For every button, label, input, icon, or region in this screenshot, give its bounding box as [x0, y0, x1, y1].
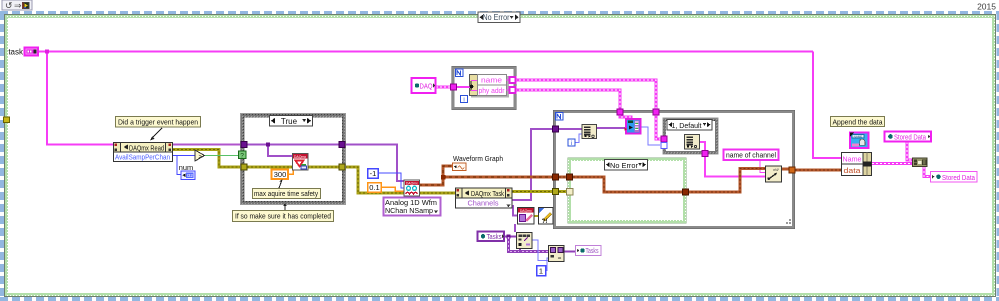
tunnel big loop left olive	[553, 189, 559, 195]
tunnel 1Default left blue	[661, 143, 667, 149]
svg-text:DAQ: DAQ	[420, 81, 433, 90]
svg-text:>: >	[199, 154, 203, 160]
wire brown set attribute to loop edge	[781, 168, 790, 171]
label Did a trigger event happen	[116, 117, 201, 141]
svg-text:I32: I32	[187, 173, 194, 178]
tunnel big loop left violet task	[553, 126, 559, 132]
wire orange 300 to wait VI	[288, 170, 293, 174]
terminal Waveform Graph	[453, 163, 467, 171]
wire error olive inside big loop to green case	[559, 190, 569, 193]
tunnel big loop top phy addr	[617, 109, 623, 115]
svg-text:DAQmx: DAQmx	[520, 209, 532, 213]
tunnel selector green ?	[239, 151, 247, 160]
svg-text:DAQmx Read: DAQmx Read	[129, 143, 164, 152]
tunnel mini loop right name	[510, 77, 516, 83]
tunnel big loop top name	[653, 109, 659, 115]
wire blue 1 constant to icon2	[545, 258, 548, 271]
svg-text:nW: nW	[773, 168, 779, 172]
resize glyph big loop corner	[786, 219, 791, 224]
tunnel 1Default left magenta	[661, 136, 667, 142]
svg-text:DAQmx Task: DAQmx Task	[471, 189, 504, 198]
comparison greater-than-zero triangle	[195, 150, 205, 161]
wire violet property node to clear task icon	[513, 205, 517, 216]
svg-text:Append the data: Append the data	[833, 117, 883, 126]
polymorphic selector Analog 1D Wfm NChan NSamp	[384, 198, 441, 216]
wire task main (magenta)	[38, 52, 841, 159]
wire error olive: read VI to property node	[419, 192, 455, 195]
constant 0.1	[368, 183, 382, 193]
label Append the data	[831, 117, 885, 127]
tunnel violet right True	[339, 142, 345, 148]
svg-text:True: True	[281, 117, 298, 126]
svg-text:Stored Data: Stored Data	[894, 133, 927, 142]
indicator num I32	[181, 171, 195, 180]
wire stored data control into build array	[907, 142, 912, 160]
svg-text:name: name	[481, 77, 502, 84]
svg-text:No Error: No Error	[610, 161, 638, 170]
constant 1	[537, 266, 546, 276]
svg-text:Channels: Channels	[468, 198, 499, 207]
mini loop N terminal	[456, 69, 464, 77]
wire error olive: property node to big for-loop	[512, 190, 553, 193]
control Stored Data	[885, 132, 932, 142]
wire brown green case to set attribute vi	[687, 169, 765, 193]
wire build array to stored data indicator	[924, 167, 930, 177]
svg-text:Tasks: Tasks	[586, 248, 599, 255]
svg-text:2015: 2015	[977, 2, 996, 12]
olive tunnel on outer case left border	[4, 117, 10, 123]
wire name inside big loop to 1,Default case	[656, 114, 663, 139]
wire violet icon2 to Tasks indicator	[564, 250, 575, 252]
property node name / phy addr	[457, 75, 510, 98]
wire task violet: True case to read VI icon	[345, 145, 404, 182]
svg-text:DAQmx: DAQmx	[294, 155, 307, 159]
svg-text:?!: ?!	[542, 219, 548, 225]
index array icon (big loop)	[582, 125, 597, 139]
svg-text:Name: Name	[843, 155, 862, 164]
wire i32 blue: read output to comparison	[173, 156, 195, 175]
tunnel green case right brown	[683, 189, 689, 195]
wire violet tasks control to insert icon	[504, 235, 516, 237]
svg-text:Waveform Graph: Waveform Graph	[453, 154, 503, 163]
wire brown loop edge to bundle data	[795, 169, 841, 172]
bundle by name node (Name / data)	[842, 153, 872, 176]
wire phy addr output to big for-loop	[515, 90, 620, 112]
svg-text:data: data	[844, 166, 862, 175]
property node DAQmx Task / Channels	[456, 188, 513, 208]
vi waveform name (blue icon above bundle)	[850, 133, 869, 149]
vi DAQmx clear task	[518, 208, 535, 225]
junction dot brown wire	[441, 175, 446, 180]
svg-text:No Error: No Error	[483, 13, 510, 22]
tunnel green case left brown	[567, 174, 573, 180]
control DAQ	[412, 78, 436, 93]
svg-text:If so make sure it has complet: If so make sure it has completed	[235, 212, 331, 221]
junction dot tasks wire	[507, 235, 511, 239]
tunnel olive left True	[241, 164, 247, 170]
svg-text:∞: ∞	[558, 256, 562, 262]
tunnel olive right True	[339, 164, 345, 170]
wire task violet inside big loop to index array	[559, 128, 582, 130]
wire brown inside big loop into green case	[559, 176, 569, 179]
case structure True	[241, 114, 346, 205]
wire blue i terminal to index array	[575, 134, 582, 143]
svg-text:1: 1	[539, 267, 543, 276]
wire violet index array to search icon	[597, 127, 625, 129]
wire waveform brown: read VI to graph terminal and big loop	[419, 166, 553, 185]
wire blue search icon to 1,Default case	[641, 127, 660, 145]
svg-text:AvailSampPerChan: AvailSampPerChan	[115, 153, 170, 162]
toolbar fragment top-left	[2, 0, 32, 11]
constant -1	[368, 169, 379, 179]
svg-text:i: i	[463, 98, 464, 104]
mini loop i terminal	[461, 96, 468, 104]
wire phy addr inside big loop to search icon	[620, 114, 631, 120]
wire error olive inside True case	[247, 166, 339, 169]
inner case structure No Error (green, in big loop)	[568, 158, 686, 223]
wire task violet: DAQmx Read to True case	[173, 144, 241, 146]
tunnel mini loop right phy addr	[510, 87, 516, 93]
wire blue insert icon to icon2	[532, 240, 548, 261]
search array icon (blue, magenta border)	[625, 119, 641, 134]
svg-text:↺: ↺	[5, 1, 13, 11]
selector label True	[270, 116, 313, 127]
big loop i terminal	[568, 139, 575, 147]
case structure 1, Default	[663, 118, 718, 154]
selector label No Error (inner)	[605, 160, 648, 171]
svg-text:0.1: 0.1	[369, 183, 379, 192]
svg-text:Tasks: Tasks	[487, 232, 502, 241]
svg-text:1, Default: 1, Default	[672, 121, 702, 130]
svg-text:NChan NSamp: NChan NSamp	[385, 206, 433, 215]
wire task violet: property node up into big for-loop	[512, 129, 553, 200]
vi DAQmx Read (Analog 1D Wfm) icon	[404, 180, 420, 196]
selector label 1, Default	[667, 120, 712, 131]
wire name of channel constant to set-attribute vi	[760, 160, 765, 173]
wire blue -1 constant to read VI	[378, 173, 404, 188]
wire violet insert icon stub down	[519, 248, 521, 252]
svg-text:?: ?	[240, 153, 244, 160]
vi icon2 (task compare)	[549, 246, 565, 262]
vi clear errors ?!	[539, 208, 554, 225]
wire task violet inside True case	[247, 145, 339, 157]
terminal task (top left)	[8, 48, 38, 57]
indicator Stored Data	[931, 172, 978, 183]
wire bundle output to build array	[872, 162, 912, 165]
wire error olive stub clear task to clear errors	[534, 215, 538, 217]
wire error olive: DAQmx Read to True case	[173, 150, 241, 168]
indicator Tasks	[576, 246, 602, 256]
wire channel name from case to set-attribute vi (magenta)	[700, 142, 765, 177]
label max aquire time safety	[253, 179, 321, 199]
label If so make sure it has completed	[233, 203, 334, 222]
wire violet clear task down to insert icon	[514, 224, 516, 232]
tunnel 1Default bottom magenta	[702, 151, 708, 157]
wire error olive: True case to read VI	[345, 167, 404, 193]
tunnel big loop right brown	[789, 167, 795, 173]
svg-text:NAME: NAME	[854, 135, 863, 139]
svg-text:Did a trigger event happen: Did a trigger event happen	[118, 118, 198, 127]
mini for-loop (name / phy addr)	[452, 66, 516, 109]
svg-text:⇒: ⇒	[14, 1, 22, 11]
svg-text:name of channel: name of channel	[726, 151, 776, 160]
wire brown inside green case	[573, 177, 682, 192]
svg-text:max aquire time safety: max aquire time safety	[254, 191, 318, 198]
svg-text:300: 300	[274, 170, 287, 179]
wire name output to big for-loop	[515, 80, 656, 112]
tunnel mini loop left	[451, 84, 457, 90]
svg-text:task: task	[8, 48, 24, 57]
big loop N terminal	[556, 113, 564, 121]
wire violet tasks array lower run	[509, 237, 549, 252]
wire DAQ to mini for-loop (string array magenta dashed)	[436, 86, 452, 89]
node DAQmx Read (AvailSampPerChan)	[114, 143, 173, 162]
svg-text:DAQmx: DAQmx	[406, 181, 418, 185]
vi insert into array (icon1)	[517, 233, 533, 249]
svg-text:-1: -1	[370, 169, 377, 178]
tunnel violet left True	[241, 142, 247, 148]
vi set waveform attribute	[766, 166, 782, 182]
build array node	[913, 158, 928, 167]
junction dot on violet wire	[266, 143, 270, 147]
control Tasks	[478, 232, 505, 242]
tunnel big loop left brown	[553, 174, 559, 180]
tunnel green case left pale (error in)	[567, 189, 574, 196]
wire orange 0.1 to read VI	[381, 187, 404, 191]
node junction on task wire	[45, 50, 49, 54]
constant name of channel	[724, 150, 779, 161]
vi DAQmx Wait Until Done (in True case)	[293, 154, 309, 171]
svg-text:i: i	[571, 141, 572, 147]
svg-text:Stored Data: Stored Data	[942, 173, 976, 182]
index array icon (in 1,Default)	[685, 135, 700, 150]
selector label No Error (outer)	[478, 12, 520, 23]
wire boolean green comparison to case selector	[204, 155, 239, 157]
constant 300	[272, 170, 289, 180]
big for-loop	[553, 110, 795, 229]
svg-text:phy addr: phy addr	[479, 88, 506, 95]
